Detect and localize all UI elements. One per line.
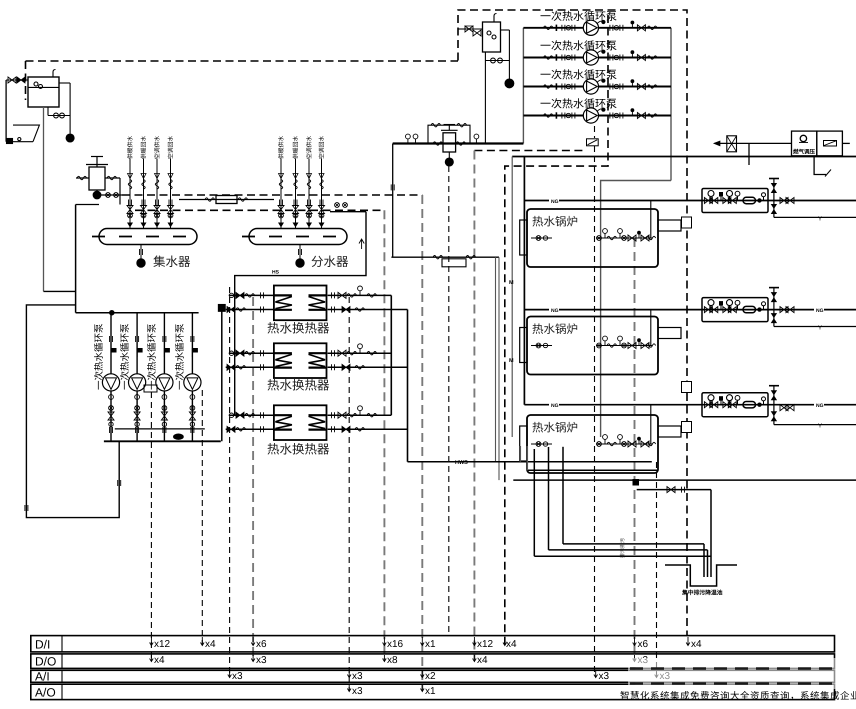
svg-text:一次热水循环泵: 一次热水循环泵 xyxy=(540,69,617,82)
svg-text:集中排污降温池: 集中排污降温池 xyxy=(681,589,723,597)
svg-text:一次热水循环泵: 一次热水循环泵 xyxy=(94,323,105,390)
svg-text:热水换热器: 热水换热器 xyxy=(267,443,330,457)
svg-text:供暖供水: 供暖供水 xyxy=(127,136,134,159)
svg-text:x4: x4 xyxy=(477,655,488,666)
svg-text:空调回水: 空调回水 xyxy=(168,136,175,159)
svg-text:x8: x8 xyxy=(387,655,398,666)
svg-text:空调回水: 空调回水 xyxy=(319,136,326,159)
svg-text:NG: NG xyxy=(816,403,824,409)
svg-text:智慧化系统集成免费咨询大全资质查询，系统集成企业咨询: 智慧化系统集成免费咨询大全资质查询，系统集成企业咨询 xyxy=(620,690,856,702)
svg-text:热水换热器: 热水换热器 xyxy=(267,379,330,393)
svg-text:燃气调压: 燃气调压 xyxy=(793,149,816,156)
svg-text:x2: x2 xyxy=(425,671,436,682)
svg-text:HS: HS xyxy=(272,270,280,276)
svg-text:x6: x6 xyxy=(638,639,649,650)
svg-text:x4: x4 xyxy=(154,655,165,666)
svg-text:x3: x3 xyxy=(256,655,267,666)
svg-text:x3: x3 xyxy=(352,671,363,682)
svg-text:一次热水循环泵: 一次热水循环泵 xyxy=(120,323,131,390)
svg-text:集水器: 集水器 xyxy=(153,255,191,269)
svg-text:x12: x12 xyxy=(477,639,494,650)
svg-text:x3: x3 xyxy=(232,671,243,682)
svg-text:x1: x1 xyxy=(425,639,436,650)
svg-text:M: M xyxy=(509,280,514,286)
svg-text:一次热水循环泵: 一次热水循环泵 xyxy=(147,323,158,390)
svg-text:热水换热器: 热水换热器 xyxy=(267,322,330,336)
svg-text:空调供水: 空调供水 xyxy=(154,136,161,159)
svg-text:x4: x4 xyxy=(691,639,702,650)
svg-text:x3: x3 xyxy=(599,671,610,682)
svg-text:热水锅炉: 热水锅炉 xyxy=(532,323,578,336)
svg-text:空调供水: 空调供水 xyxy=(306,136,313,159)
svg-text:M: M xyxy=(509,358,514,364)
svg-text:一次热水循环泵: 一次热水循环泵 xyxy=(540,10,617,23)
svg-text:Y: Y xyxy=(818,216,822,223)
svg-text:一次热水循环泵: 一次热水循环泵 xyxy=(540,98,617,111)
svg-text:排污排污: 排污排污 xyxy=(619,538,626,558)
svg-text:x12: x12 xyxy=(154,639,171,650)
svg-text:供暖回水: 供暖回水 xyxy=(293,136,300,159)
svg-text:x6: x6 xyxy=(256,639,267,650)
svg-text:x16: x16 xyxy=(387,639,404,650)
svg-text:NG: NG xyxy=(816,308,824,314)
svg-text:x4: x4 xyxy=(205,639,216,650)
svg-text:NG: NG xyxy=(551,308,559,314)
svg-text:D/O: D/O xyxy=(35,655,56,669)
svg-text:A/I: A/I xyxy=(35,670,50,684)
svg-text:供暖回水: 供暖回水 xyxy=(141,136,148,159)
svg-text:一次热水循环泵: 一次热水循环泵 xyxy=(540,40,617,53)
svg-text:D/I: D/I xyxy=(35,638,50,652)
svg-text:x3: x3 xyxy=(352,686,363,697)
svg-text:NG: NG xyxy=(551,199,559,205)
svg-text:一次热水循环泵: 一次热水循环泵 xyxy=(175,323,186,390)
svg-text:分水器: 分水器 xyxy=(311,255,349,269)
svg-text:热水锅炉: 热水锅炉 xyxy=(532,216,578,229)
svg-text:热水锅炉: 热水锅炉 xyxy=(532,422,578,435)
svg-text:A/O: A/O xyxy=(35,686,56,700)
svg-text:x1: x1 xyxy=(425,686,436,697)
svg-text:NG: NG xyxy=(551,403,559,409)
svg-text:HWS: HWS xyxy=(455,460,468,466)
svg-text:x4: x4 xyxy=(506,639,517,650)
svg-text:供暖供水: 供暖供水 xyxy=(278,136,285,159)
